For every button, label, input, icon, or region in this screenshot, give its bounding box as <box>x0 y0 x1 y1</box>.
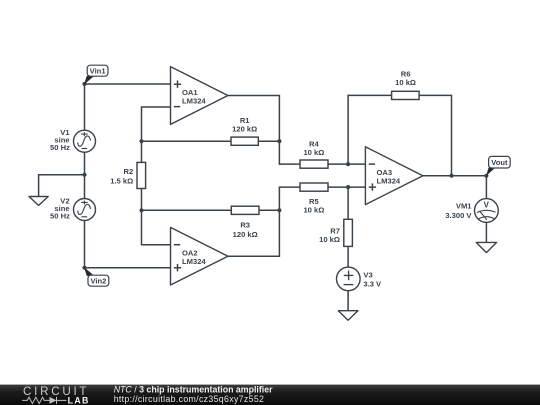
svg-text:R2: R2 <box>123 167 133 176</box>
svg-text:LM324: LM324 <box>377 177 401 186</box>
svg-text:50 Hz: 50 Hz <box>50 143 70 152</box>
svg-text:10 kΩ: 10 kΩ <box>319 235 340 244</box>
svg-text:R3: R3 <box>240 221 250 230</box>
svg-text:3.3 V: 3.3 V <box>363 280 382 289</box>
svg-text:120 kΩ: 120 kΩ <box>233 230 258 239</box>
svg-text:http://circuitlab.com/cz35q6xy: http://circuitlab.com/cz35q6xy7z552 <box>114 394 265 404</box>
svg-text:V3: V3 <box>363 271 372 280</box>
svg-text:R7: R7 <box>330 227 340 236</box>
svg-text:Vin1: Vin1 <box>90 67 107 76</box>
svg-text:V: V <box>484 201 490 210</box>
svg-text:10 kΩ: 10 kΩ <box>303 205 324 214</box>
svg-text:120 kΩ: 120 kΩ <box>232 124 257 133</box>
svg-text:LM324: LM324 <box>182 96 206 105</box>
svg-text:10 kΩ: 10 kΩ <box>303 148 324 157</box>
svg-text:LM324: LM324 <box>182 257 206 266</box>
svg-text:Vin2: Vin2 <box>90 277 106 286</box>
svg-text:LAB: LAB <box>68 395 90 405</box>
svg-text:1.5 kΩ: 1.5 kΩ <box>110 176 133 185</box>
svg-text:50 Hz: 50 Hz <box>50 212 70 221</box>
svg-text:10 kΩ: 10 kΩ <box>395 78 416 87</box>
svg-text:Vout: Vout <box>491 158 508 167</box>
svg-text:3.300 V: 3.300 V <box>445 211 472 220</box>
svg-text:VM1: VM1 <box>456 202 472 211</box>
